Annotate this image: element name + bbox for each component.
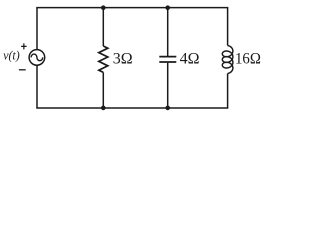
wire capacitor branch lower segment [167,63,169,108]
polarity plus sign [21,43,27,49]
capacitor 4ohm [159,57,176,62]
wire bottom rail [36,107,228,109]
node junction dot top of resistor branch [101,5,106,10]
polarity minus sign [19,69,26,71]
node junction dot bottom of capacitor branch [165,106,170,111]
svg-text:v(t): v(t) [3,48,20,62]
wire top rail [36,7,228,9]
resistor 3ohm [99,46,108,72]
wire left rail upper segment [36,8,38,50]
wire left rail lower segment [36,65,38,108]
node junction dot top of capacitor branch [165,5,170,10]
svg-text:16Ω: 16Ω [235,50,261,67]
wire resistor branch lower segment [102,72,104,108]
svg-text:3Ω: 3Ω [113,50,133,67]
inductor 16ohm [222,46,233,74]
voltage source v(t) AC source [29,50,45,66]
wire right rail upper segment [227,8,229,46]
wire resistor branch upper segment [102,8,104,46]
wire right rail lower segment [227,74,229,109]
svg-text:4Ω: 4Ω [180,50,200,67]
node junction dot bottom of resistor branch [101,106,106,111]
wire capacitor branch upper segment [167,8,169,56]
